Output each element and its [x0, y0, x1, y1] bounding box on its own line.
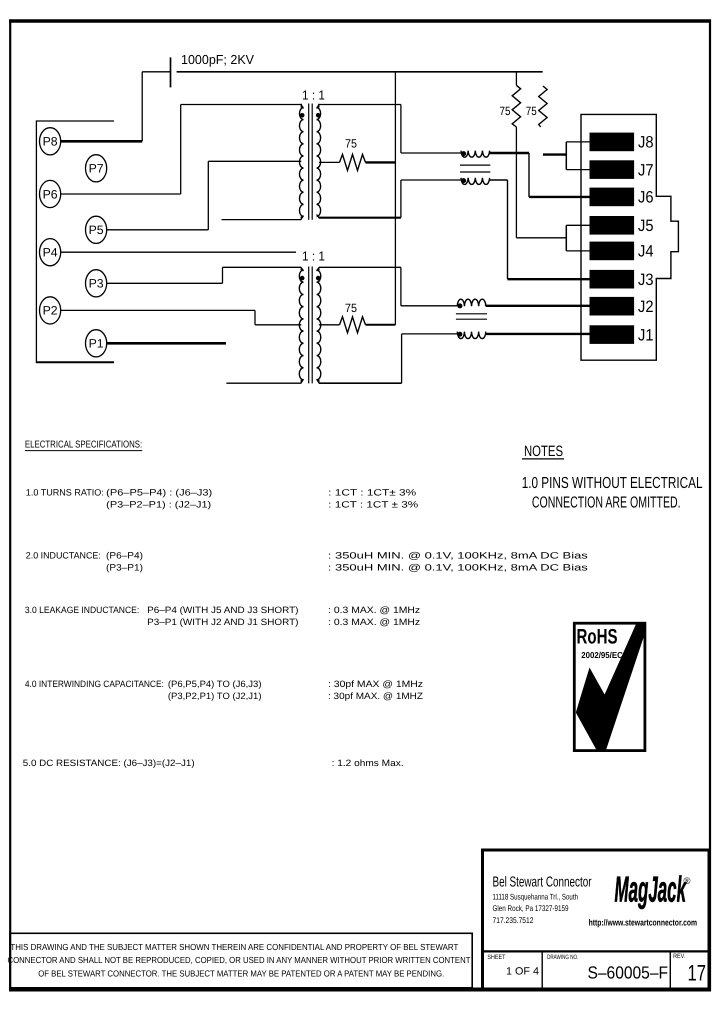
- wire T2 primary bottom stub: [226, 382, 301, 384]
- wire P2 to T2 primary center tap: [255, 324, 301, 326]
- resistor R4 75 ohm: [539, 86, 547, 127]
- contact pad J5: [590, 216, 635, 235]
- svg-text:J6: J6: [638, 189, 654, 207]
- svg-text:: 0.3 MAX. @ 1MHz: : 0.3 MAX. @ 1MHz: [328, 617, 420, 627]
- svg-text:75: 75: [526, 104, 537, 118]
- svg-text:(P6–P5–P4) : (J6–J3): (P6–P5–P4) : (J6–J3): [106, 487, 212, 497]
- svg-text:P3: P3: [89, 277, 104, 291]
- RoHS logo: [574, 623, 645, 750]
- wire riser P8 up to capacitor: [141, 72, 143, 142]
- wire T1 primary bottom stub: [222, 219, 302, 221]
- contact pad J4: [590, 242, 635, 261]
- capacitor C1 1000pF 2KV: [170, 57, 172, 87]
- wire to J4: [566, 250, 589, 252]
- title block: [481, 850, 710, 989]
- wire into choke L2 bottom: [402, 333, 458, 335]
- svg-text:MagJack: MagJack: [615, 869, 687, 910]
- wire bracket J5-J4: [565, 225, 567, 251]
- svg-text:Bel Stewart Connector: Bel Stewart Connector: [493, 874, 592, 890]
- wire to J7: [566, 169, 589, 171]
- wire P6 to T1 primary top: [181, 104, 302, 106]
- svg-text:(P3–P2–P1) : (J2–J1): (P3–P2–P1) : (J2–J1): [106, 500, 211, 510]
- svg-text:: 30pf MAX. @ 1MHZ: : 30pf MAX. @ 1MHZ: [328, 691, 423, 701]
- contact pad J2: [590, 297, 635, 316]
- resistor R2 75 ohm: [340, 317, 366, 333]
- svg-text:P1: P1: [89, 337, 104, 351]
- svg-text:(P3–P1): (P3–P1): [106, 563, 143, 573]
- svg-text:P8: P8: [43, 135, 58, 149]
- wire to J8: [566, 141, 589, 143]
- svg-text:DRAWING NO.: DRAWING NO.: [547, 954, 578, 961]
- svg-text:3.0 LEAKAGE INDUCTANCE:: 3.0 LEAKAGE INDUCTANCE:: [25, 605, 139, 615]
- wire riser P6: [180, 105, 182, 195]
- transformer T2: [299, 267, 321, 384]
- svg-text:: 350uH MIN. @ 0.1V, 100KHz,: : 350uH MIN. @ 0.1V, 100KHz, 8mA DC Bias: [328, 563, 589, 573]
- wire choke L2 top to J2: [486, 305, 590, 307]
- wire into choke L2 top: [401, 305, 457, 307]
- svg-text:CONNECTOR AND SHALL NOT BE REP: CONNECTOR AND SHALL NOT BE REPRODUCED, C…: [8, 955, 472, 965]
- svg-text:®: ®: [684, 876, 691, 887]
- contact pad J3: [590, 270, 635, 289]
- wire riser to choke L2 top: [400, 267, 402, 306]
- svg-text:P6: P6: [43, 187, 58, 201]
- wire to J5: [566, 224, 589, 226]
- svg-text:P3–P1 (WITH J2 AND J1 SHORT): P3–P1 (WITH J2 AND J1 SHORT): [147, 617, 298, 627]
- contact pad J6: [590, 188, 635, 207]
- wire jog P2: [254, 310, 256, 324]
- wire T2 secondary bottom: [319, 382, 402, 384]
- wire P6: [61, 193, 181, 195]
- wire P4 stub: [61, 251, 296, 253]
- wire into choke L1 bottom: [401, 179, 461, 181]
- svg-text:11118 Susquehanna Trl., South: 11118 Susquehanna Trl., South: [493, 893, 579, 902]
- svg-text:J3: J3: [638, 271, 654, 289]
- wire P5: [107, 229, 209, 231]
- svg-text:J2: J2: [638, 298, 654, 316]
- wire T1 secondary top to riser: [319, 104, 401, 106]
- wire P1 stub: [107, 342, 226, 345]
- wire R2 to bus node: [366, 324, 396, 326]
- wire P8 to capacitor riser: [61, 140, 143, 143]
- pin P3: [86, 270, 107, 297]
- svg-text:REV.: REV.: [673, 953, 685, 960]
- pin P8: [40, 128, 61, 155]
- svg-text:2.0 INDUCTANCE:: 2.0 INDUCTANCE:: [26, 551, 101, 561]
- svg-text:: 1CT : 1CT ± 3%: : 1CT : 1CT ± 3%: [328, 500, 418, 510]
- svg-text:: 350uH MIN. @ 0.1V, 100KHz,: : 350uH MIN. @ 0.1V, 100KHz, 8mA DC Bias: [328, 551, 589, 561]
- contact pad J7: [590, 160, 635, 179]
- svg-text:75: 75: [500, 104, 511, 118]
- svg-text:1.0 PINS WITHOUT ELECTRICAL: 1.0 PINS WITHOUT ELECTRICAL: [522, 475, 703, 492]
- wire T1 secondary center tap: [319, 161, 340, 163]
- resistor R1 75 ohm: [340, 154, 366, 170]
- svg-text:P4: P4: [43, 246, 58, 260]
- svg-text:(P3,P2,P1) TO (J2,J1): (P3,P2,P1) TO (J2,J1): [168, 691, 262, 701]
- svg-text:THIS DRAWING AND THE SUBJECT M: THIS DRAWING AND THE SUBJECT MATTER SHOW…: [10, 942, 458, 952]
- pin P4: [40, 239, 61, 266]
- svg-text:J1: J1: [638, 326, 654, 344]
- svg-text:P2: P2: [43, 304, 58, 318]
- choke L1 common-mode: [460, 151, 490, 185]
- svg-text:SHEET: SHEET: [487, 954, 505, 961]
- svg-text:: 1.2 ohms Max.: : 1.2 ohms Max.: [332, 758, 404, 768]
- svg-text:P7: P7: [89, 162, 104, 176]
- svg-text:http://www.stewartconnector.co: http://www.stewartconnector.com: [589, 917, 698, 927]
- wire capacitor right plate to bus: [177, 71, 543, 73]
- svg-text:: 30pf MAX @ 1MHz: : 30pf MAX @ 1MHz: [328, 679, 423, 689]
- wire P2: [61, 309, 255, 311]
- svg-text:1 OF 4: 1 OF 4: [506, 966, 539, 978]
- wire into choke L1 top: [401, 152, 461, 154]
- svg-text:5.0 DC RESISTANCE: (J6–J3)=(J: 5.0 DC RESISTANCE: (J6–J3)=(J2–J1): [23, 758, 195, 768]
- svg-text:1000pF; 2KV: 1000pF; 2KV: [181, 52, 254, 67]
- svg-text:P5: P5: [89, 223, 104, 237]
- wire R3 to J5/J4 bracket: [515, 127, 517, 238]
- svg-text:17: 17: [688, 961, 707, 986]
- wire to capacitor plate: [142, 71, 170, 73]
- wire riser to choke L1 top: [400, 105, 402, 154]
- svg-text:(P6–P4): (P6–P4): [106, 551, 143, 561]
- pin P7: [86, 155, 107, 182]
- wire riser to choke L2 bottom: [401, 334, 403, 383]
- svg-text:75: 75: [345, 301, 357, 315]
- wire riser P5: [207, 161, 209, 230]
- svg-text:1.0 TURNS RATIO:: 1.0 TURNS RATIO:: [26, 487, 104, 497]
- svg-text:4.0 INTERWINDING CAPACITANCE:: 4.0 INTERWINDING CAPACITANCE:: [25, 679, 164, 689]
- wire choke L1 bottom to J3: [490, 179, 508, 181]
- pin P6: [40, 180, 61, 207]
- svg-text:NOTES: NOTES: [524, 443, 563, 460]
- wire bracket J8-J7: [565, 142, 567, 170]
- node A capacitor bus vertical: [394, 72, 396, 325]
- wire choke L2 bottom to J1: [486, 333, 590, 335]
- svg-text:P6–P4 (WITH J5 AND J3 SHORT): P6–P4 (WITH J5 AND J3 SHORT): [147, 605, 298, 615]
- svg-text:717.235.7512: 717.235.7512: [493, 916, 534, 925]
- transformer T1: [299, 104, 320, 220]
- svg-text:S–60005–F: S–60005–F: [588, 963, 669, 983]
- pin P1: [86, 330, 107, 357]
- wire T2 secondary top to riser: [319, 266, 401, 268]
- wire P5 to T1 primary center tap: [208, 160, 301, 162]
- wire R4 stub to J8/J7 bracket: [543, 153, 566, 155]
- disclaimer box: [10, 933, 472, 988]
- pin header outline: [36, 121, 114, 362]
- wire riser P3: [222, 267, 224, 283]
- svg-text:75: 75: [345, 137, 357, 151]
- svg-text:OF BEL STEWART CONNECTOR. THE: OF BEL STEWART CONNECTOR. THE SUBJECT MA…: [38, 968, 444, 978]
- pin P5: [86, 216, 107, 243]
- svg-text:Glen Rock, Pa 17327-9159: Glen Rock, Pa 17327-9159: [493, 904, 569, 913]
- choke L2 common-mode: [456, 299, 487, 338]
- wire T2 secondary center tap: [319, 324, 340, 326]
- svg-text:: 0.3 MAX. @ 1MHz: : 0.3 MAX. @ 1MHz: [328, 605, 420, 615]
- wire R1 to bus node: [366, 161, 396, 163]
- wire T1 secondary bottom: [319, 217, 401, 219]
- wire choke L1 top to J6: [490, 152, 529, 154]
- wire P3: [107, 282, 223, 284]
- contact pad J1: [590, 325, 635, 344]
- svg-text:(P6,P5,P4) TO (J6,J3): (P6,P5,P4) TO (J6,J3): [168, 679, 262, 689]
- wire riser to choke L1 bottom: [400, 180, 402, 218]
- svg-text:: 1CT : 1CT± 3%: : 1CT : 1CT± 3%: [328, 487, 416, 497]
- pin P2: [40, 297, 61, 324]
- wire P3 to T2 primary top: [223, 266, 302, 268]
- svg-text:ELECTRICAL SPECIFICATIONS:: ELECTRICAL SPECIFICATIONS:: [25, 440, 142, 451]
- svg-text:1 : 1: 1 : 1: [302, 88, 325, 103]
- svg-text:CONNECTION ARE OMITTED.: CONNECTION ARE OMITTED.: [532, 495, 681, 512]
- connector J RJ45 outline: [581, 114, 678, 360]
- svg-text:J7: J7: [638, 161, 654, 179]
- svg-text:1 : 1: 1 : 1: [302, 249, 325, 264]
- contact pad J8: [590, 133, 635, 152]
- svg-text:2002/95/EC: 2002/95/EC: [581, 650, 623, 660]
- svg-text:RoHS: RoHS: [577, 626, 618, 649]
- resistor R3 75 ohm: [515, 72, 517, 86]
- svg-text:J4: J4: [638, 243, 654, 261]
- svg-text:J8: J8: [638, 134, 654, 152]
- svg-text:J5: J5: [638, 217, 654, 235]
